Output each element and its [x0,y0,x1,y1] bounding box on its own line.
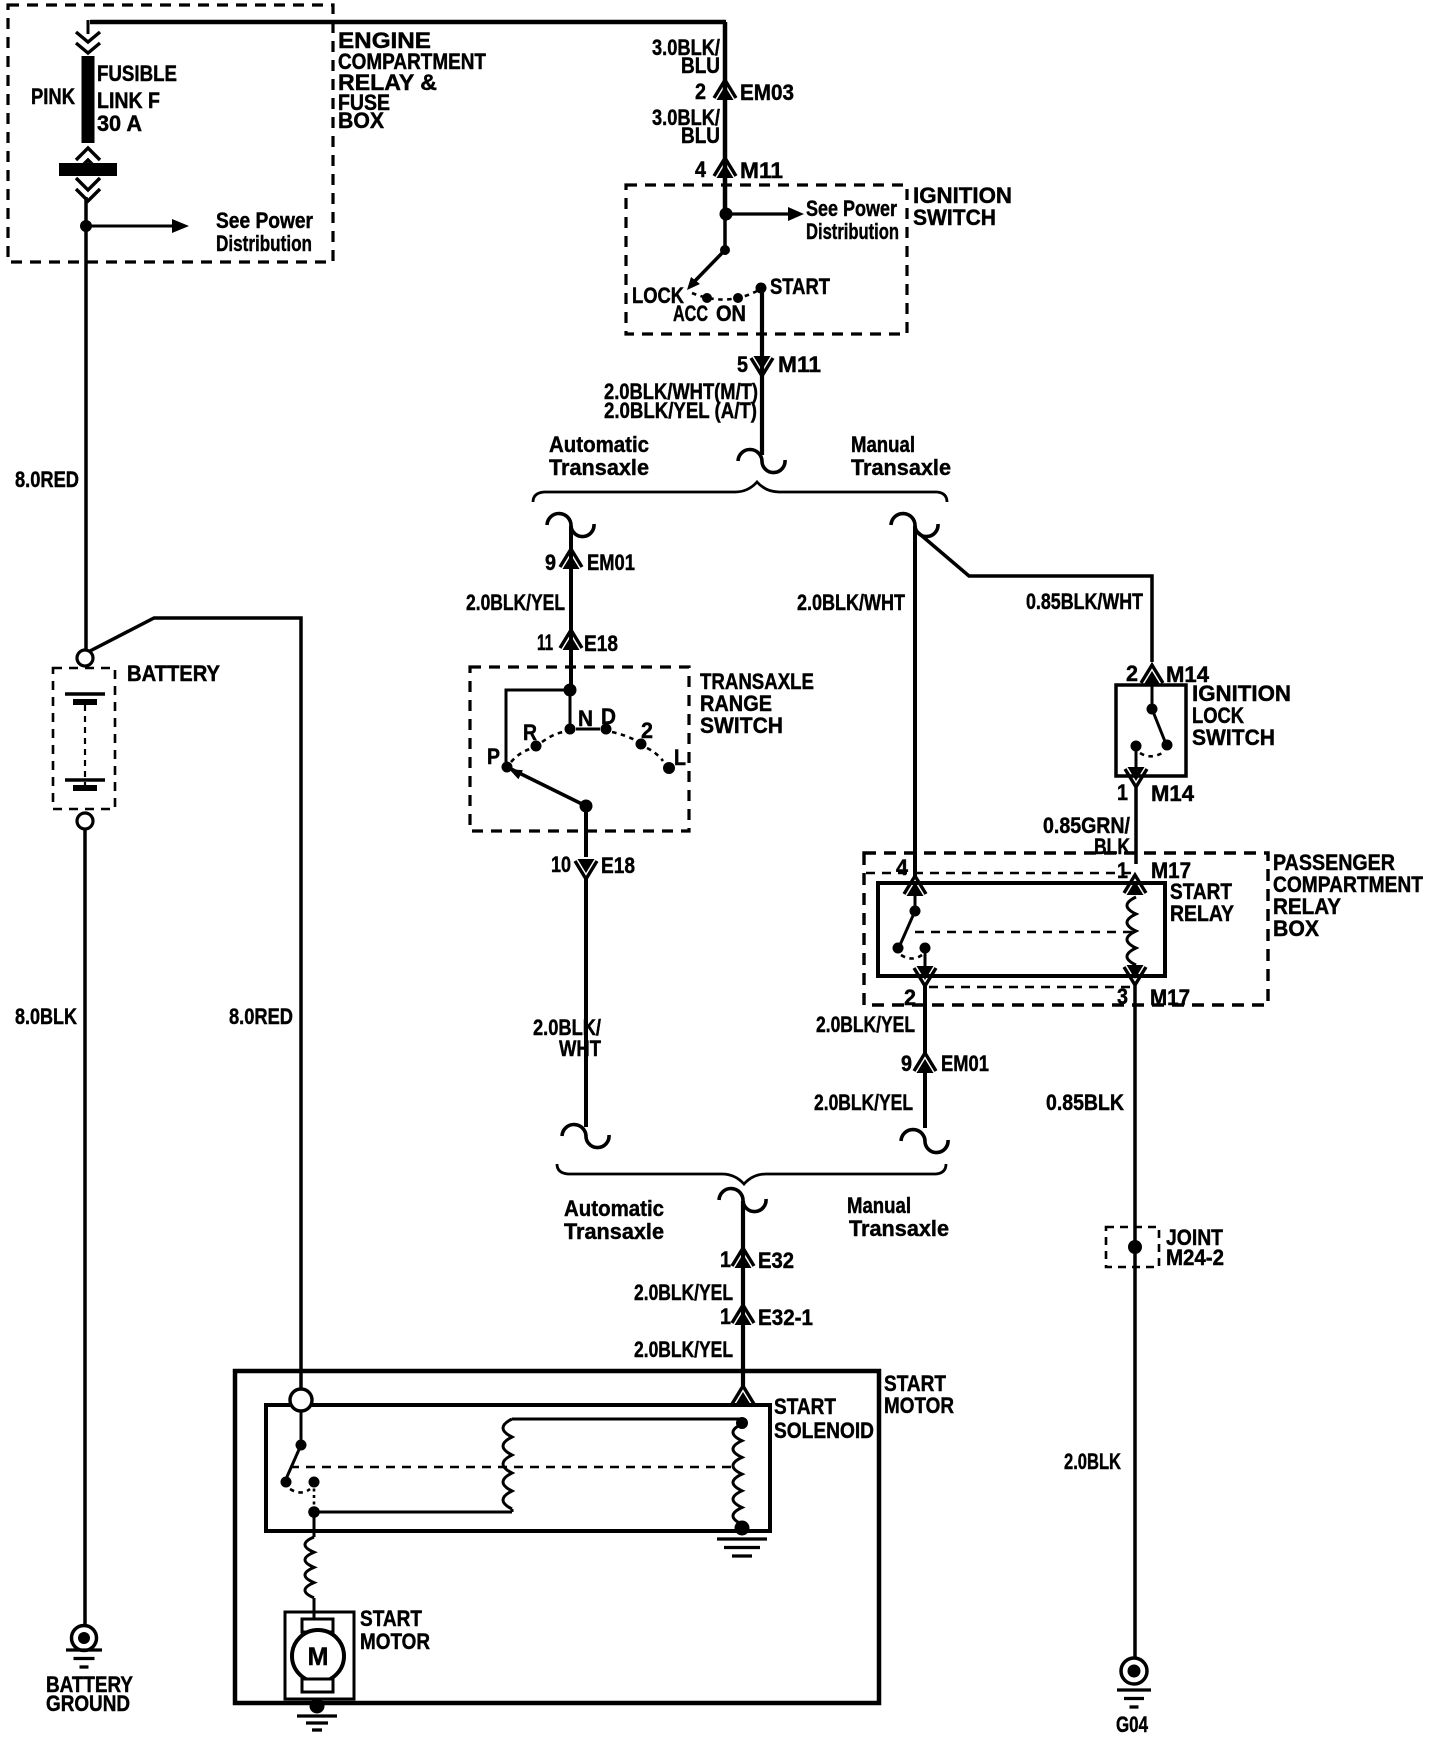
svg-text:1: 1 [720,1247,731,1272]
svg-text:BLU: BLU [681,123,720,148]
wire: relay pin3 to ground G04 (0.85BLK) [1133,985,1137,1658]
svg-text:ON: ON [716,301,746,326]
svg-text:Transaxle: Transaxle [564,1219,664,1244]
start relay (solid box) [878,883,1165,976]
svg-text:RELAY: RELAY [1170,901,1234,926]
wire break hook (manual branch lower) [901,1130,948,1153]
node: power distribution tap junction [80,220,92,232]
brace: transaxle merge (lower) [557,1164,946,1184]
svg-text:30 A: 30 A [97,111,142,136]
ignition switch (dashed box) [626,185,907,334]
svg-text:8.0RED: 8.0RED [229,1004,293,1029]
ground: battery ground [72,1626,97,1651]
svg-text:BOX: BOX [1273,916,1319,941]
svg-text:2: 2 [695,79,706,104]
svg-text:4: 4 [896,855,909,880]
svg-text:See Power: See Power [216,208,313,233]
svg-text:2.0BLK/YEL (A/T): 2.0BLK/YEL (A/T) [604,398,757,423]
connector 10 E18 [575,861,597,879]
connector 11 E18 [560,630,582,648]
svg-text:M: M [308,1643,329,1671]
svg-text:Distribution: Distribution [216,231,312,256]
wire: winding top bus [512,1418,740,1421]
svg-text:START: START [770,274,830,299]
svg-text:9: 9 [901,1051,912,1076]
wire: solenoid to motor [313,1512,316,1537]
range switch contacts P R N D 2 L [502,762,513,773]
engine compartment relay &amp; fuse box (dashed) [8,5,333,262]
svg-text:M24-2: M24-2 [1166,1245,1224,1270]
battery cell symbols [65,692,105,696]
wire: range switch output down [584,806,588,857]
svg-text:E18: E18 [584,631,618,656]
svg-text:10: 10 [551,852,571,877]
wire break hook (manual transaxle branch) [891,514,938,537]
svg-text:LINK F: LINK F [97,88,160,113]
wire: feed down to ignition switch [723,22,728,212]
fusible link F connector chevrons (top) [76,32,100,53]
svg-text:PINK: PINK [31,84,75,109]
wire: relay pin2 down (2.0BLK/YEL) [923,986,927,1053]
svg-text:EM01: EM01 [941,1051,989,1076]
svg-text:MOTOR: MOTOR [884,1393,954,1418]
svg-text:SWITCH: SWITCH [1192,725,1275,750]
start motor assembly (outer box) [235,1371,879,1703]
svg-text:BOX: BOX [338,108,384,133]
svg-text:E32-1: E32-1 [758,1305,813,1330]
connector 1 M14 [1135,746,1138,768]
svg-text:2.0BLK/YEL: 2.0BLK/YEL [466,590,565,615]
svg-text:GROUND: GROUND [46,1691,130,1716]
svg-text:E32: E32 [758,1248,794,1273]
svg-text:8.0BLK: 8.0BLK [15,1004,77,1029]
start motor ground [310,1699,325,1714]
wire: to transaxle range switch [569,526,573,690]
svg-text:2.0BLK/YEL: 2.0BLK/YEL [814,1090,913,1115]
connector 1 E32-1 [732,1305,754,1323]
svg-text:0.85BLK/WHT: 0.85BLK/WHT [1026,589,1143,614]
svg-text:M14: M14 [1151,781,1195,806]
ignition switch wiper [723,214,727,250]
svg-text:FUSIBLE: FUSIBLE [97,61,177,86]
svg-text:E18: E18 [601,853,635,878]
start motor (box) [285,1612,354,1699]
connector 9 EM01 [560,549,582,567]
svg-text:5: 5 [737,352,748,377]
svg-text:BLU: BLU [681,53,720,78]
range switch wiper to common [507,767,586,806]
svg-text:1: 1 [720,1304,731,1329]
arrow: see power distribution (fuse box) [86,225,172,228]
svg-text:M11: M11 [778,352,821,377]
ignition lock switch (box) [1116,685,1186,776]
relay linkage (dashed) [915,931,1136,934]
svg-text:P: P [487,744,500,769]
wire break hook (start feed) [719,1189,766,1212]
svg-text:D: D [601,704,616,729]
solenoid linkage (dashed) [290,1466,733,1469]
solenoid ground [735,1521,750,1536]
svg-text:BATTERY: BATTERY [127,661,220,686]
svg-text:Automatic: Automatic [564,1196,664,1221]
connector pin 4 (relay) [904,876,926,894]
connector 9 EM01 (lower) [914,1053,936,1071]
svg-text:2.0BLK/YEL: 2.0BLK/YEL [634,1280,733,1305]
wire: to start solenoid [741,1201,745,1386]
ignition lock switch contacts [1151,684,1154,709]
wire: START contact down [760,288,764,455]
svg-text:2.0BLK: 2.0BLK [1064,1449,1121,1474]
svg-text:8.0RED: 8.0RED [15,467,79,492]
wire: battery positive to start motor (8.0RED) [90,618,301,1389]
svg-text:2: 2 [1126,661,1138,686]
svg-text:SWITCH: SWITCH [913,205,996,230]
connector 5 M11 [751,358,773,376]
svg-text:11: 11 [537,630,553,655]
svg-text:START: START [774,1394,836,1419]
connector 1 E32 [732,1248,754,1266]
svg-text:Transaxle: Transaxle [849,1216,949,1241]
svg-text:2.0BLK/YEL: 2.0BLK/YEL [634,1337,733,1362]
relay coil [1127,897,1136,965]
svg-text:Manual: Manual [847,1193,911,1218]
svg-text:G04: G04 [1116,1712,1149,1737]
svg-text:2: 2 [904,985,916,1010]
battery negative terminal [77,813,93,829]
pull-in winding coil [503,1419,512,1509]
battery positive terminal [77,650,93,666]
svg-text:M11: M11 [740,158,783,183]
brace: transaxle split (upper) [533,482,947,502]
svg-text:EM03: EM03 [740,80,794,105]
relay switch contacts [914,896,917,911]
svg-text:Distribution: Distribution [806,219,899,244]
svg-text:2.0BLK/YEL: 2.0BLK/YEL [816,1012,915,1037]
wire break hook (ignition feed) [738,449,785,472]
svg-text:M17: M17 [1150,985,1190,1010]
svg-text:Manual: Manual [851,432,915,457]
wire: junction to N contact [569,690,572,726]
svg-text:2.0BLK/WHT: 2.0BLK/WHT [797,590,905,615]
arrow: see power distribution (ignition switch) [726,212,788,215]
svg-text:3: 3 [1117,984,1128,1009]
connector into solenoid [732,1386,754,1404]
svg-text:WHT: WHT [559,1036,601,1061]
svg-text:M17: M17 [1151,858,1191,883]
svg-text:Transaxle: Transaxle [549,455,649,480]
svg-text:START: START [360,1606,422,1631]
node: range switch feed junction [564,684,577,697]
svg-text:SOLENOID: SOLENOID [774,1418,874,1443]
wire: battery negative to ground (8.0BLK) [83,829,87,1626]
svg-text:1: 1 [1117,780,1128,805]
svg-text:Automatic: Automatic [549,432,649,457]
wire label 0.85GRN/BLK [1134,787,1138,864]
fusible link F 30A PINK (thick element) [82,56,95,143]
svg-text:SWITCH: SWITCH [700,713,783,738]
svg-text:N: N [578,706,593,731]
svg-text:4: 4 [695,157,707,182]
passenger compartment relay box (dashed) [864,853,1268,1005]
fusible link lower chevrons and bus bar [76,148,100,172]
solenoid switch contacts [300,1411,303,1445]
hold winding coil [733,1424,742,1524]
wire: manual branch down to start relay [913,526,917,876]
connector 1 M17 [1124,875,1146,893]
connector pin 2 (relay) [924,948,927,966]
joint M24-2 (dashed box) [1106,1227,1159,1267]
svg-text:9: 9 [545,550,556,575]
connector 2 M14 [1141,665,1163,683]
svg-text:Transaxle: Transaxle [851,455,951,480]
svg-text:1: 1 [1117,858,1128,883]
svg-text:EM01: EM01 [587,550,635,575]
wire break hook (automatic transaxle branch) [547,514,594,537]
svg-text:BLK: BLK [1094,834,1130,859]
start solenoid (inner box) [266,1405,770,1531]
connector 3 M17 [1124,967,1146,985]
wire: junction to P contact [506,690,570,767]
wire: battery positive feed entering fuse box [87,20,90,34]
svg-text:MOTOR: MOTOR [360,1629,430,1654]
node: ignition feed junction [720,208,733,221]
svg-text:R: R [523,720,537,745]
wire: branch to ignition lock switch [915,530,1152,662]
connector 2 EM03 [714,80,736,98]
ground G04 [1121,1658,1147,1684]
svg-text:ACC: ACC [673,301,708,326]
ignition switch positions LOCK ACC ON START [692,291,757,300]
wire: fuse box down to battery [84,197,88,650]
svg-text:See Power: See Power [806,196,897,221]
battery BATTERY (dashed box) [53,668,115,809]
connector 4 M11 [714,158,736,176]
transaxle range switch (dashed box) [470,667,689,831]
start motor M [302,1619,333,1632]
svg-text:L: L [674,745,686,770]
svg-text:0.85BLK: 0.85BLK [1046,1090,1124,1115]
wire break hook (automatic branch lower) [562,1125,609,1148]
solenoid battery terminal [290,1389,312,1411]
svg-text:2: 2 [641,718,653,743]
wire: to pull-in winding [314,1511,512,1514]
